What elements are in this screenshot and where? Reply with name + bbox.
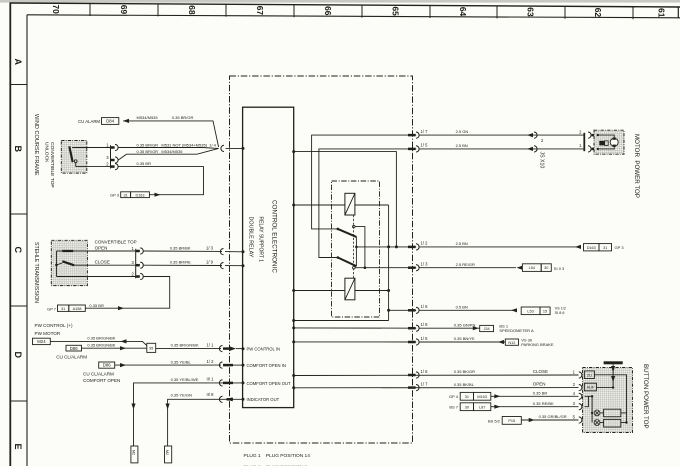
svg-text:C: C xyxy=(13,247,23,254)
plug pin 1/ 3 at boundary xyxy=(408,266,416,269)
svg-text:0.35 BR/GR M531 NOT (M534+M5: 0.35 BR/GR M531 NOT (M534+M535) 1/ 4 xyxy=(137,143,217,148)
node control box 1/3 xyxy=(242,250,245,253)
wire comfort open out to connector M2a xyxy=(134,383,243,446)
svg-text:OPEN: OPEN xyxy=(533,382,546,387)
wire M24 to junction box xyxy=(50,341,147,345)
wire D86 to junction box xyxy=(82,347,147,349)
svg-text:II/ 8: II/ 8 xyxy=(207,392,215,397)
frame coordinate row bottom line xyxy=(27,15,680,18)
relay contact cross rail xyxy=(355,227,365,268)
svg-text:OPEN: OPEN xyxy=(95,246,108,251)
svg-text:PW CONTROL IN: PW CONTROL IN xyxy=(247,347,281,352)
svg-text:0.35 BK/GR: 0.35 BK/GR xyxy=(454,369,475,374)
node common rail row 1/2 xyxy=(387,245,390,248)
wire pin 1/5 to lower arm xyxy=(319,149,416,258)
wire indicator out to connector M2b xyxy=(168,399,243,446)
node at control box pin 1/4 xyxy=(242,147,245,150)
wire D84 to harness tip xyxy=(123,121,219,147)
wire 1/3 to L54 xyxy=(419,267,516,269)
button S3 power top housing xyxy=(583,368,633,433)
plug arc II/8 xyxy=(219,396,222,402)
svg-text:CONVERTIBLE TOP: CONVERTIBLE TOP xyxy=(95,240,137,245)
wire S2 close row inside xyxy=(74,264,87,266)
wire control box row 1/5b xyxy=(294,341,417,343)
svg-text:1/ 2: 1/ 2 xyxy=(207,359,215,364)
frame letter dividers xyxy=(10,85,27,402)
svg-text:M24: M24 xyxy=(37,339,46,344)
svg-text:2.5 RE/GR: 2.5 RE/GR xyxy=(456,262,475,267)
svg-text:DOUBLE RELAY: DOUBLE RELAY xyxy=(248,217,254,258)
svg-text:1/ 6: 1/ 6 xyxy=(421,304,429,309)
ground boxes 31 A158 xyxy=(58,305,69,311)
node control box comfort open out xyxy=(242,381,245,384)
svg-text:JS X10: JS X10 xyxy=(539,152,545,169)
switch S1 lever xyxy=(69,146,72,162)
wire coil K2 left xyxy=(294,290,345,292)
svg-text:SI 0 3: SI 0 3 xyxy=(554,266,565,271)
svg-text:0.35 YE/BL/WE: 0.35 YE/BL/WE xyxy=(171,377,199,382)
control unit boundary dash-dot box xyxy=(230,76,413,443)
boxes L54 30 xyxy=(522,264,541,272)
svg-text:L54: L54 xyxy=(529,266,535,270)
svg-text:0.35 BR/RE: 0.35 BR/RE xyxy=(170,260,191,265)
svg-text:0.35 BR/BK: 0.35 BR/BK xyxy=(170,246,191,251)
svg-text:2.5 BN: 2.5 BN xyxy=(456,143,468,148)
svg-text:69: 69 xyxy=(119,5,129,15)
svg-text:D163: D163 xyxy=(587,246,596,250)
svg-text:1/ 5: 1/ 5 xyxy=(421,143,429,148)
switch S1 contact xyxy=(74,160,77,163)
wire 1/2 to GP3 xyxy=(419,246,581,248)
wire GP3 to S1 pin2 xyxy=(118,167,203,195)
relay lower contact point xyxy=(353,266,356,269)
svg-text:D84: D84 xyxy=(106,119,114,124)
svg-text:0.5 BN: 0.5 BN xyxy=(456,304,468,309)
plug bracket of S1 xyxy=(110,145,112,168)
connector box D86 first xyxy=(66,345,82,351)
wire control box to row 1/2 xyxy=(294,152,397,247)
svg-text:31: 31 xyxy=(603,246,607,250)
plug pin 1/ 5 at boundary xyxy=(408,341,416,344)
arrow to L53 xyxy=(511,308,517,312)
wire D86-2 to control unit 1/2 xyxy=(115,364,221,366)
svg-text:WIND COURSE FRAME: WIND COURSE FRAME xyxy=(33,114,39,176)
motor internal wires xyxy=(597,134,599,136)
svg-text:L87: L87 xyxy=(479,405,485,409)
node S2 pivot xyxy=(55,264,58,267)
wire control box row 1/8 xyxy=(294,327,417,329)
wire control box row open xyxy=(294,387,579,389)
arrow P15 wire xyxy=(529,418,535,422)
svg-text:B: B xyxy=(13,146,23,153)
svg-text:BUTTON POWER TOP: BUTTON POWER TOP xyxy=(642,364,649,429)
plug arc II/1 xyxy=(219,380,222,386)
arrow to N12 xyxy=(498,340,504,344)
button rocker stem xyxy=(612,364,614,387)
connector box D84 xyxy=(102,118,119,125)
svg-text:CU ALARM: CU ALARM xyxy=(78,119,100,124)
svg-text:COMFORT OPEN IN: COMFORT OPEN IN xyxy=(247,363,286,368)
wire relay row 1/3 xyxy=(365,267,416,269)
switch S1 convertible-top-unlock shield box xyxy=(61,141,87,174)
inline connector row 1/7 xyxy=(527,133,533,137)
wire S2 pin3 to control unit 1/9 xyxy=(144,264,223,266)
svg-text:0.35 BR/GN/BK: 0.35 BR/GN/BK xyxy=(87,336,115,341)
node control box indicator out xyxy=(242,398,245,401)
plug pin 1/ 2 at boundary xyxy=(408,246,416,249)
svg-text:GP 7: GP 7 xyxy=(47,306,57,311)
svg-text:CONTROL ELECTRONIC: CONTROL ELECTRONIC xyxy=(271,200,278,273)
svg-text:COMFORT OPEN OUT: COMFORT OPEN OUT xyxy=(247,381,291,386)
connector box M24 xyxy=(33,338,51,344)
svg-text:PW CONTROL (+): PW CONTROL (+) xyxy=(35,323,73,328)
svg-text:J34: J34 xyxy=(484,327,490,331)
relay upper contact point xyxy=(353,225,356,228)
button ZU box xyxy=(584,371,594,379)
control electronic box xyxy=(243,107,294,407)
plug contact of S2 at y276.5 xyxy=(136,275,140,278)
plug arc 1/3 xyxy=(220,249,223,255)
svg-text:31: 31 xyxy=(61,307,65,311)
box N12 xyxy=(505,339,518,345)
arrow down on M2a wire xyxy=(131,404,135,410)
svg-text:62: 62 xyxy=(593,8,603,18)
arrow on M24 wire xyxy=(121,339,127,343)
plug arc 1/2 xyxy=(219,362,222,368)
svg-text:1/ 5: 1/ 5 xyxy=(421,336,429,341)
svg-text:1/ 9: 1/ 9 xyxy=(206,260,214,265)
button AUF box xyxy=(584,383,596,391)
plug bracket of S2 xyxy=(135,249,137,279)
button resistor R2 xyxy=(604,419,621,427)
wire control box row close xyxy=(294,374,579,377)
motor M1 magnet block xyxy=(599,141,604,146)
svg-text:65: 65 xyxy=(391,7,401,17)
frame letters column line xyxy=(26,15,28,466)
svg-text:0.35 BR/GR: 0.35 BR/GR xyxy=(172,115,194,120)
svg-text:D: D xyxy=(13,352,23,359)
svg-text:0.35 BR/GN/BK: 0.35 BR/GN/BK xyxy=(171,343,199,348)
svg-text:N12: N12 xyxy=(508,341,515,345)
node control box 1/2 xyxy=(242,364,245,367)
svg-text:1/ 3: 1/ 3 xyxy=(206,245,214,250)
svg-text:VS 1/2: VS 1/2 xyxy=(555,306,566,310)
arrow on GP7 wire xyxy=(118,306,124,310)
svg-text:0.35 GN/PN: 0.35 GN/PN xyxy=(454,322,476,327)
wire S2 close row to plug xyxy=(87,264,135,266)
arrow to L54 xyxy=(517,266,523,270)
boxes 30 L87 xyxy=(460,403,473,411)
svg-text:63: 63 xyxy=(526,7,536,17)
svg-text:L53: L53 xyxy=(527,309,533,313)
plug pin 1/ 6 at boundary xyxy=(408,374,416,377)
svg-text:STEHLE TRANSMISSION: STEHLE TRANSMISSION xyxy=(33,242,39,303)
wire relay row 1/6 xyxy=(389,309,417,311)
svg-text:BS 7: BS 7 xyxy=(449,405,458,410)
svg-text:66: 66 xyxy=(323,6,333,16)
switch S2 closed contact bar xyxy=(62,250,73,252)
wire junction box to control unit 1/1 xyxy=(156,347,221,349)
svg-text:M2: M2 xyxy=(131,450,135,455)
plug pin 1/ 7 at boundary xyxy=(408,134,416,137)
plug contact of S2 at y251.0 xyxy=(136,250,140,253)
switch S2 left bus xyxy=(56,251,58,277)
wire pin 1/7 to upper arm xyxy=(312,135,417,229)
button rocker bar xyxy=(604,361,623,364)
wire control box to common rail bottom xyxy=(294,320,389,322)
arrow into J34 xyxy=(473,326,479,330)
svg-text:0.35 BR: 0.35 BR xyxy=(533,390,548,395)
inline connector row 1/5 xyxy=(527,147,533,151)
svg-text:0.35 GR/BL/GR: 0.35 GR/BL/GR xyxy=(539,414,567,419)
wire coil common rail xyxy=(388,205,390,321)
wire S2 pin1 to control unit 1/3 xyxy=(144,250,223,252)
frame right border stub xyxy=(677,7,679,18)
svg-text:31: 31 xyxy=(124,193,128,197)
svg-text:CLOSE: CLOSE xyxy=(95,260,110,265)
arrow on D86-2 wire xyxy=(120,363,126,367)
svg-text:1/ 7: 1/ 7 xyxy=(421,381,429,386)
wire 1/5 to motor xyxy=(419,148,584,150)
svg-text:2.5 BN: 2.5 BN xyxy=(456,241,468,246)
svg-text:1/ 6: 1/ 6 xyxy=(421,369,429,374)
button lamp L2 xyxy=(594,420,600,426)
wire 1/5b to N12 xyxy=(419,341,505,343)
svg-text:GP 4: GP 4 xyxy=(449,394,459,399)
svg-text:M534/M535: M534/M535 xyxy=(137,115,159,120)
svg-text:1/ 3: 1/ 3 xyxy=(421,262,429,267)
svg-text:CU CL/ALARM: CU CL/ALARM xyxy=(56,354,87,359)
relay contact arm lower xyxy=(338,258,357,267)
svg-text:SPEEDOMETER A: SPEEDOMETER A xyxy=(499,328,534,333)
svg-text:MOTOR POWER TOP: MOTOR POWER TOP xyxy=(633,134,640,198)
switch S2 lever xyxy=(62,261,74,265)
plug contact of S2 at y265.2 xyxy=(136,264,140,267)
plug contact of S1 at y160.0 xyxy=(111,159,115,162)
motor M1 housing xyxy=(594,130,624,154)
wire S1 pin2 to plug xyxy=(76,166,111,168)
svg-text:SI 8 6: SI 8 6 xyxy=(555,311,565,315)
svg-text:30: 30 xyxy=(465,405,469,409)
svg-text:M163: M163 xyxy=(477,395,487,399)
svg-text:2.5 GN: 2.5 GN xyxy=(456,129,469,134)
svg-text:95: 95 xyxy=(149,346,153,350)
svg-text:INDICATOR OUT: INDICATOR OUT xyxy=(247,397,280,402)
svg-text:GP 3: GP 3 xyxy=(110,193,120,198)
node common rail coil2 xyxy=(387,289,390,292)
svg-text:0.35 BR: 0.35 BR xyxy=(89,303,104,308)
svg-text:PARKING BRAKE: PARKING BRAKE xyxy=(521,342,554,347)
plug contact of S1 at y166.6 xyxy=(111,165,115,168)
arrow out of indicator xyxy=(227,397,233,401)
node common rail pin 1/6 xyxy=(387,309,390,312)
svg-text:P15: P15 xyxy=(508,419,515,423)
svg-text:RELAY SUPPORT 1: RELAY SUPPORT 1 xyxy=(258,217,264,263)
relay boundary dash-dot box xyxy=(332,181,380,317)
wire S2 pin2 row to plug xyxy=(87,276,135,278)
arrow to D163 xyxy=(575,245,581,249)
svg-text:70: 70 xyxy=(51,5,61,15)
svg-text:D163: D163 xyxy=(135,193,144,197)
button internal wiring xyxy=(594,375,626,423)
svg-text:CU CL/ALARM: CU CL/ALARM xyxy=(83,372,114,377)
wire harness band bottom (pin3) xyxy=(118,148,218,160)
svg-text:30: 30 xyxy=(544,266,548,270)
button lamp wiring left rail xyxy=(585,396,593,422)
motor M1 symbol xyxy=(610,138,618,146)
plug pin 1/ 7 at boundary xyxy=(408,386,416,389)
ground boxes D163 31 right xyxy=(584,244,600,251)
svg-text:15: 15 xyxy=(543,309,547,313)
relay coil K1 xyxy=(345,193,355,215)
svg-text:1/ 1: 1/ 1 xyxy=(207,342,215,347)
svg-text:CLOSE: CLOSE xyxy=(533,369,548,374)
arrow on GP3 wire xyxy=(155,193,161,197)
boxes 31 M163 xyxy=(460,392,473,400)
connector M2b bottom box xyxy=(165,446,172,463)
svg-text:64: 64 xyxy=(458,7,468,17)
arrow down on M2b wire xyxy=(166,404,170,410)
svg-text:AUF: AUF xyxy=(587,386,595,390)
arrow on D86 wire xyxy=(120,346,126,350)
relay mechanical link dashed xyxy=(353,215,355,278)
arrow GP4 wire xyxy=(494,394,500,398)
svg-text:D86: D86 xyxy=(103,363,111,368)
wire BS7 to button pin 3 xyxy=(491,406,579,408)
svg-text:0.35 BR/GR M534/M535: 0.35 BR/GR M534/M535 xyxy=(137,149,184,154)
wire S2 open row to plug xyxy=(87,250,135,252)
svg-text:0.35 BR/GN/BK: 0.35 BR/GN/BK xyxy=(87,343,115,348)
wire GP4 to button pin 4 xyxy=(491,395,579,397)
svg-text:E: E xyxy=(13,444,23,450)
svg-text:II/ 1: II/ 1 xyxy=(207,377,215,382)
svg-text:A: A xyxy=(13,59,23,66)
svg-text:PLUG 1 PLUG POSITION 14: PLUG 1 PLUG POSITION 14 xyxy=(244,453,311,459)
frame left heavy border line xyxy=(9,3,11,466)
wire coil K1 left xyxy=(294,204,345,206)
svg-text:0.35 YE/BL: 0.35 YE/BL xyxy=(171,359,192,364)
plug arc 1/1 xyxy=(219,346,222,352)
motor plug bar xyxy=(583,133,585,151)
wire relay output row 1/2 xyxy=(356,246,416,248)
wire S1 pin1 to plug xyxy=(72,147,110,149)
harness tip plug arc xyxy=(221,145,224,151)
plug pin 1/ 5 at boundary xyxy=(408,148,416,151)
relay contact arm upper xyxy=(338,229,357,237)
svg-text:A158: A158 xyxy=(73,307,82,311)
svg-text:31: 31 xyxy=(465,395,469,399)
motor plug contacts xyxy=(588,132,591,138)
arrow into D84 xyxy=(123,119,129,123)
svg-text:0.35 RE/BK: 0.35 RE/BK xyxy=(533,401,554,406)
svg-text:COMFORT OPEN: COMFORT OPEN xyxy=(83,378,120,383)
svg-text:0.35 BK/BL: 0.35 BK/BL xyxy=(454,382,475,387)
relay coil K2 xyxy=(345,278,355,300)
wire button pin3 internal xyxy=(585,396,589,406)
arrow BS7 wire xyxy=(494,405,500,409)
switch S2 shield box xyxy=(51,240,87,285)
svg-text:0.35 BN/YE: 0.35 BN/YE xyxy=(454,336,475,341)
plug arc 1/9 xyxy=(220,263,223,269)
wire 1/6 to L53 xyxy=(419,309,515,311)
wire harness band top (pin1) xyxy=(118,147,218,150)
frame top ticks xyxy=(90,4,633,20)
junction box 95 xyxy=(147,343,156,352)
svg-text:ZU: ZU xyxy=(587,373,592,377)
boxes L53 15 xyxy=(521,307,540,315)
svg-text:BS 5/2: BS 5/2 xyxy=(488,418,501,423)
svg-text:GP 3: GP 3 xyxy=(615,245,625,250)
box J34 xyxy=(480,325,494,331)
box P15 xyxy=(502,417,521,425)
svg-text:61: 61 xyxy=(657,8,667,18)
svg-text:0.35 BR: 0.35 BR xyxy=(137,161,152,166)
plug contact of S1 at y147.5 xyxy=(111,146,115,149)
svg-text:PW MOTOR: PW MOTOR xyxy=(35,331,61,336)
button lamp L1 xyxy=(594,410,600,416)
ground boxes 31 D163 xyxy=(121,192,131,198)
wire harness tip to control unit pin 1/4 xyxy=(226,147,243,149)
svg-text:1/ 2: 1/ 2 xyxy=(421,241,429,246)
connector box D86 second xyxy=(99,362,115,368)
svg-text:1/ 7: 1/ 7 xyxy=(421,129,429,134)
svg-text:1/ 8: 1/ 8 xyxy=(421,322,429,327)
connector M2a bottom box xyxy=(131,446,138,463)
wire S2 open row inside xyxy=(57,250,88,252)
svg-text:67: 67 xyxy=(255,6,265,16)
svg-text:D86: D86 xyxy=(70,346,78,351)
wire S2 pin2 row inside xyxy=(57,276,88,278)
relay arm output rail xyxy=(355,237,357,266)
svg-text:0.35 YE/GN: 0.35 YE/GN xyxy=(171,392,192,397)
wire GP7 to S2 pin2 xyxy=(85,277,169,309)
wire P15 to button pin 5 xyxy=(521,419,578,421)
plug pin 1/ 6 at boundary xyxy=(408,309,416,312)
wire 1/8 to J34 xyxy=(419,327,480,329)
plug pin 1/ 8 at boundary xyxy=(408,327,416,330)
wire 1/7 to motor xyxy=(419,134,584,136)
node control box 1/1 xyxy=(242,347,245,350)
frame top border line xyxy=(10,3,680,7)
node control box 1/9 xyxy=(242,264,245,267)
svg-text:M2: M2 xyxy=(165,450,169,455)
button resistor R1 xyxy=(604,409,621,417)
svg-text:68: 68 xyxy=(187,5,197,15)
